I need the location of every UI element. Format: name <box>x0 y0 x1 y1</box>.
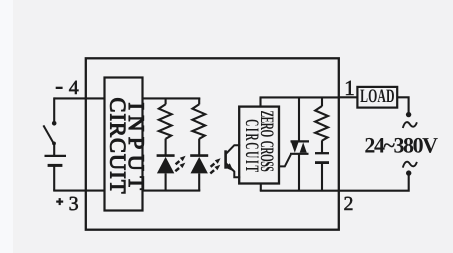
phototransistor Q1 collector lead <box>226 145 241 154</box>
AC upper tilde <box>403 122 417 128</box>
wire: R3 to C1 <box>321 140 323 153</box>
capacitor C1 top plate <box>315 152 329 154</box>
input circuit block box <box>105 78 143 211</box>
wire: branch 2 upper stub <box>198 98 200 104</box>
wire: zero-cross box bottom stub to rail <box>260 184 262 191</box>
AC lower terminal dot <box>406 170 411 175</box>
wire: R1 to LED1 <box>165 139 167 156</box>
left page strip <box>0 0 13 253</box>
switch S lower contact dot <box>52 142 56 146</box>
battery DC source: long plate <box>45 155 67 157</box>
wire: AC lower terminal to terminal 2 <box>339 173 409 191</box>
resistor R2 <box>192 104 205 139</box>
battery DC source: short plate <box>48 164 63 167</box>
wire: load to AC upper terminal <box>397 97 409 113</box>
svg-text:2: 2 <box>344 193 354 215</box>
wire: triac gate <box>278 155 291 167</box>
wire: triac branch upper <box>298 97 300 142</box>
svg-text:1: 1 <box>344 76 355 100</box>
wire: LED2 to bottom rail <box>198 173 200 190</box>
wire: left vertical upper <box>53 97 55 123</box>
capacitor C1 bottom plate <box>315 161 329 164</box>
optocoupler light arrows into Q1 <box>211 164 215 167</box>
AC lower tilde <box>403 162 417 168</box>
phototransistor Q1 emitter lead <box>226 163 241 177</box>
resistor R3 (snubber) <box>315 106 328 141</box>
wire: bottom rail output-side <box>260 190 339 192</box>
LED D1 emission arrows <box>176 161 180 164</box>
phototransistor Q1 emitter arrowhead <box>225 163 233 171</box>
wire: terminal 1 to load <box>339 96 358 98</box>
svg-text:3: 3 <box>69 193 79 215</box>
label terminal - 4 <box>56 87 63 89</box>
LED D2 (cathode bar + triangle) <box>190 154 208 157</box>
load box <box>357 87 397 108</box>
wire: top rail input-side <box>142 97 201 99</box>
triac T1: left triangle <box>291 143 298 153</box>
wire: input top (terminal 4) <box>54 97 105 99</box>
triac T1: top bar <box>291 140 310 142</box>
label terminal + 3 <box>56 201 63 203</box>
wire: top rail output-side <box>260 96 339 98</box>
wire: snubber branch upper <box>321 97 323 106</box>
svg-text:LOAD: LOAD <box>360 86 394 107</box>
wire: bottom rail input-side <box>142 190 201 192</box>
svg-text:24~380V: 24~380V <box>364 132 438 157</box>
wire: R2 to LED2 <box>198 139 200 156</box>
wire: battery to bottom rail <box>53 165 55 190</box>
svg-text:4: 4 <box>69 77 79 99</box>
LED D1 (cathode bar + triangle) <box>157 154 175 157</box>
svg-text:CIRCUIT: CIRCUIT <box>105 98 130 194</box>
wire: zero-cross box top stub to rail <box>259 97 261 106</box>
AC upper terminal dot <box>406 112 411 117</box>
switch S fixed contact dot <box>52 121 57 126</box>
wire: switch to battery <box>53 143 55 156</box>
wire: branch 1 upper stub <box>165 98 167 104</box>
switch S blade <box>43 125 53 143</box>
phototransistor Q1 base bar <box>224 150 227 168</box>
triac T1: bottom bar <box>290 153 309 155</box>
resistor R1 <box>159 104 172 139</box>
zero cross circuit block box <box>239 107 279 184</box>
wire: triac branch lower <box>298 154 300 191</box>
triac T1: right triangle <box>300 142 307 152</box>
wire: input bottom (terminal 3) <box>53 190 105 192</box>
wire: LED1 to bottom rail <box>165 173 167 190</box>
SSR outer case box <box>86 58 339 229</box>
wire: C1 to bottom rail <box>321 163 323 191</box>
